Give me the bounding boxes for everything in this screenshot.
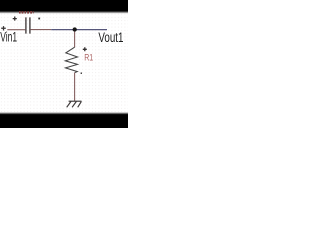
capacitor C1 plates xyxy=(26,17,30,33)
wire (C1 to junction, maroon) xyxy=(30,29,51,31)
wire (R1 down to ground, maroon) xyxy=(74,73,76,101)
input + terminal xyxy=(1,26,6,30)
polarity - (C1) xyxy=(38,18,40,20)
wire (Vout net, navy) xyxy=(51,29,107,31)
polarity - (R1) xyxy=(81,73,82,74)
letterbox bar top xyxy=(0,0,128,14)
wire (input lead, maroon, left of C1) xyxy=(7,29,25,31)
resistor R1 zigzag xyxy=(65,47,77,72)
polarity + (R1) xyxy=(83,47,87,51)
label C1 (clipped by top bar) xyxy=(0,0,128,128)
node junction dot xyxy=(73,27,77,31)
ground xyxy=(67,101,82,107)
wire (junction down to R1, maroon) xyxy=(74,32,76,48)
polarity + (C1) xyxy=(13,17,17,21)
letterbox bar bottom xyxy=(0,112,128,128)
